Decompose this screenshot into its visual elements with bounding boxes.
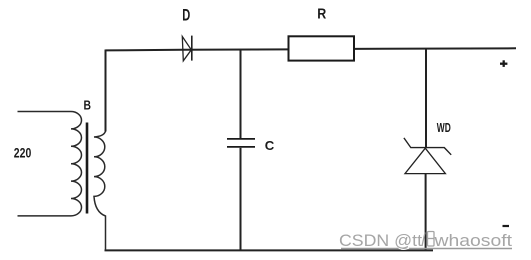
- capacitor C bottom plate: [227, 146, 255, 148]
- watermark CJK glyph (partially hidden by wire): [422, 232, 434, 247]
- wire: capacitor branch lower: [240, 148, 242, 251]
- diode D triangle (anode): [182, 37, 191, 61]
- resistor R body: [289, 36, 355, 60]
- svg-text:CSDN @tt: CSDN @tt: [339, 231, 422, 250]
- wire: left vertical (top of secondary up to top rail): [105, 50, 107, 132]
- capacitor C top plate: [227, 138, 255, 140]
- svg-text:220: 220: [14, 145, 32, 161]
- svg-text:B: B: [84, 98, 92, 113]
- transformer B core: [86, 123, 89, 214]
- zener diode WD triangle: [405, 148, 445, 173]
- svg-text:whaosoft: whaosoft: [433, 231, 512, 250]
- terminal - (negative output): [503, 225, 510, 227]
- svg-text:WD: WD: [437, 121, 451, 135]
- wire: bottom rail: [105, 249, 434, 251]
- wire: zener branch lower: [425, 174, 427, 251]
- transformer B secondary winding + wire down to bottom rail: [94, 131, 106, 250]
- wire: capacitor branch upper: [240, 50, 242, 139]
- transformer B primary winding with leads: [18, 112, 82, 216]
- terminal + (positive output): [500, 60, 507, 67]
- wire: top rail from left corner to + output: [106, 48, 517, 50]
- watermark CSDN underline: [341, 248, 512, 250]
- svg-text:C: C: [265, 139, 275, 153]
- zener diode WD cathode bar with bent ends: [404, 138, 451, 155]
- diode D cathode bar: [191, 36, 193, 61]
- wire: zener branch upper: [425, 48, 427, 147]
- svg-text:R: R: [317, 6, 326, 22]
- svg-text:D: D: [182, 7, 190, 25]
